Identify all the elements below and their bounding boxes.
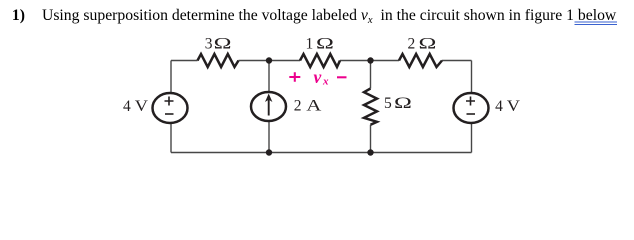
svg-text:2: 2	[408, 36, 416, 53]
svg-text:V: V	[507, 97, 521, 114]
svg-text:x: x	[322, 76, 329, 88]
svg-text:Ω: Ω	[316, 36, 334, 53]
svg-text:v: v	[314, 67, 322, 87]
svg-text:1: 1	[306, 36, 314, 53]
svg-text:Ω: Ω	[394, 95, 412, 112]
svg-text:Ω: Ω	[418, 36, 436, 53]
svg-text:Ω: Ω	[214, 36, 232, 53]
svg-text:3: 3	[205, 36, 213, 53]
svg-text:4: 4	[495, 98, 503, 115]
svg-text:A: A	[306, 97, 322, 114]
svg-text:V: V	[135, 97, 149, 114]
svg-text:2: 2	[294, 97, 302, 114]
svg-text:4: 4	[123, 98, 131, 115]
svg-text:5: 5	[384, 95, 392, 112]
